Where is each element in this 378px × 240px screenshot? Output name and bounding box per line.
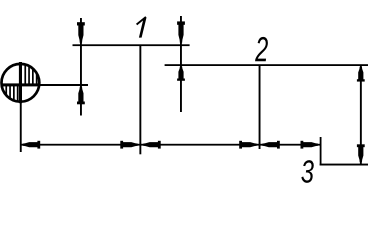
dimension line 1 (horizontal) [73,44,190,46]
extension line below label 2 at x=259.5 [259,65,261,149]
bottom chain arrow pointing left at x=260 [262,141,280,149]
label 2 [255,37,268,61]
bottom chain arrow pointing right at x=259 [239,141,257,149]
bottom chain arrow left end, pointing left at x=20.7 [23,141,41,149]
datum circle hatch, bottom-left quadrant [2,85,19,107]
extension line below label 1 at x=140 [139,45,141,155]
right vertical dimension line at x=361 [360,65,362,165]
arrow down onto dimension line 1 at x=181 [177,21,185,42]
dimension line 2 (horizontal) [165,64,368,66]
arrow up onto centerline at x=82 [77,87,85,105]
arrow down onto dimension line 1 at x=82 [77,22,85,43]
arrow down onto step surface at x=361 [357,144,365,162]
centerline from datum circle to the right [40,84,88,86]
step profile vertical edge [320,137,322,165]
datum circle hatch, top-right quadrant [24,62,41,85]
bottom chain arrow pointing right at x=140 [120,141,138,149]
label 3 [301,160,313,183]
datum circle symbol (measurement base) [2,64,40,102]
bottom chain arrow pointing right at step edge x=320 [301,141,319,149]
label 1 [136,16,147,37]
bottom chain arrow pointing left at x=141 [143,141,161,149]
extension line at x=181 (dimension 1 right end to dimension 2) [180,16,182,112]
extension line below datum circle [20,103,22,152]
datum circle horizontal diameter [1,83,40,86]
datum circle vertical diameter [19,62,22,103]
step profile bottom surface line [320,164,368,166]
arrow up onto dimension line 2 at x=181 [177,66,185,80]
extension line at x=82 (dimension 1 left end to centerline) [80,18,82,116]
bottom chain dimension line [21,144,321,146]
arrow up onto dimension line 2 at x=361 [357,67,365,82]
